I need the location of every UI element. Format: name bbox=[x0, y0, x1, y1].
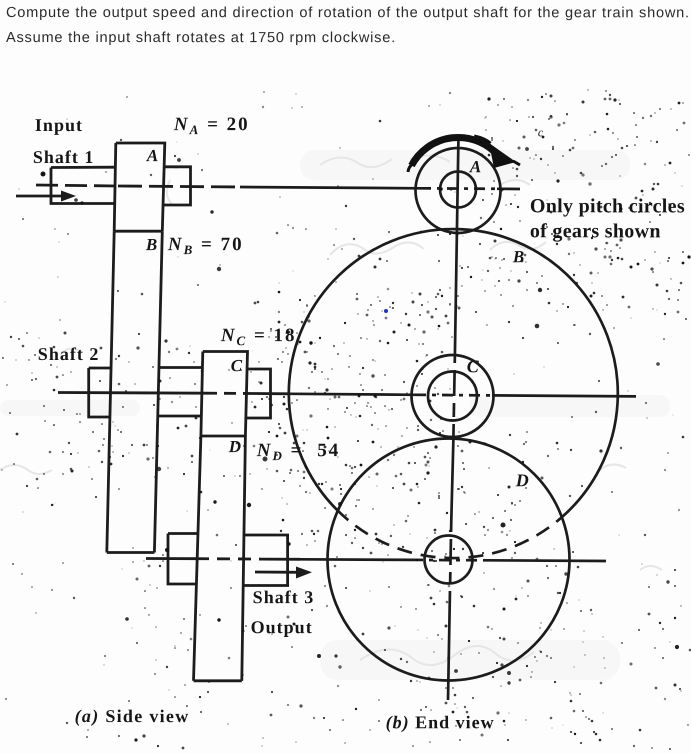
gear C hub circle bbox=[428, 372, 477, 421]
svg-text:A: A bbox=[146, 146, 159, 165]
clockwise rotation arrow above gear A bbox=[408, 137, 520, 172]
svg-text:B: B bbox=[145, 235, 158, 254]
svg-text:B: B bbox=[512, 247, 525, 266]
svg-text:NA = 20: NA = 20 bbox=[173, 114, 250, 137]
gear B pitch circle: dashed arc inside gear D bbox=[337, 510, 561, 558]
shaft 2 mid box (between gear B and gear C) bbox=[159, 368, 203, 417]
end view vertical center line bbox=[455, 135, 459, 349]
shaft 3 right stub bbox=[244, 535, 288, 586]
svg-text:C: C bbox=[231, 356, 243, 375]
faint scan shading patches bbox=[0, 150, 670, 680]
shaft 2 horizontal line (end view) bbox=[290, 394, 415, 395]
faint ghost handwriting strokes bbox=[0, 155, 662, 665]
svg-text:A: A bbox=[469, 157, 482, 176]
gear A pitch circle (end view) bbox=[416, 148, 501, 233]
gear A rectangle bbox=[114, 143, 165, 231]
svg-text:Shaft 1: Shaft 1 bbox=[33, 147, 95, 167]
problem statement line 2 bbox=[6, 30, 396, 46]
svg-text:ND = 54: ND = 54 bbox=[256, 440, 340, 463]
shaft 1 center line bbox=[36, 185, 118, 186]
shaft 2 left stub bbox=[89, 368, 111, 417]
problem statement line 1 bbox=[6, 5, 690, 21]
svg-text:NC = 18: NC = 18 bbox=[220, 325, 297, 348]
svg-text:Only pitch circles: Only pitch circles bbox=[530, 195, 685, 217]
line between gear C and gear D bbox=[201, 435, 246, 438]
svg-text:NB = 70: NB = 70 bbox=[167, 234, 244, 257]
gear D pitch circle (end view) bbox=[328, 439, 570, 681]
gear B rectangle bbox=[107, 231, 163, 552]
svg-text:Shaft 3: Shaft 3 bbox=[253, 587, 315, 607]
shaft 3 horizontal line (end view) bbox=[300, 558, 412, 561]
gear A hub circle bbox=[440, 172, 476, 208]
blue ink dot bbox=[384, 309, 388, 313]
shaft 1 left box bbox=[51, 167, 116, 203]
svg-text:Shaft 2: Shaft 2 bbox=[38, 344, 100, 364]
input direction arrow on shaft 1 bbox=[16, 191, 76, 202]
line between gear A and gear B bbox=[114, 230, 162, 233]
shaft 2 center line bbox=[58, 391, 205, 395]
svg-text:D: D bbox=[228, 437, 242, 456]
gear D hub circle bbox=[425, 536, 473, 584]
shaft 3 center line bbox=[146, 557, 196, 560]
gear C pitch circle (end view) bbox=[412, 355, 494, 437]
shaft 2 right stub bbox=[246, 369, 271, 418]
gear B pitch circle: solid major arc bbox=[289, 229, 618, 517]
shaft 1 right stub bbox=[164, 167, 191, 205]
svg-text:Output: Output bbox=[251, 617, 313, 637]
shaft 3 left stub bbox=[168, 534, 199, 585]
shaft 1 horizontal line (end view) bbox=[240, 187, 420, 188]
svg-text:(a) Side view: (a) Side view bbox=[75, 706, 190, 727]
output direction arrow on shaft 3 bbox=[255, 567, 312, 579]
svg-text:C: C bbox=[467, 356, 480, 376]
svg-text:D: D bbox=[515, 470, 530, 490]
svg-text:Input: Input bbox=[35, 115, 83, 135]
gear C rectangle bbox=[201, 352, 248, 437]
svg-text:of gears shown: of gears shown bbox=[530, 220, 661, 242]
svg-text:(b) End view: (b) End view bbox=[386, 712, 495, 733]
gear D rectangle bbox=[194, 436, 246, 681]
